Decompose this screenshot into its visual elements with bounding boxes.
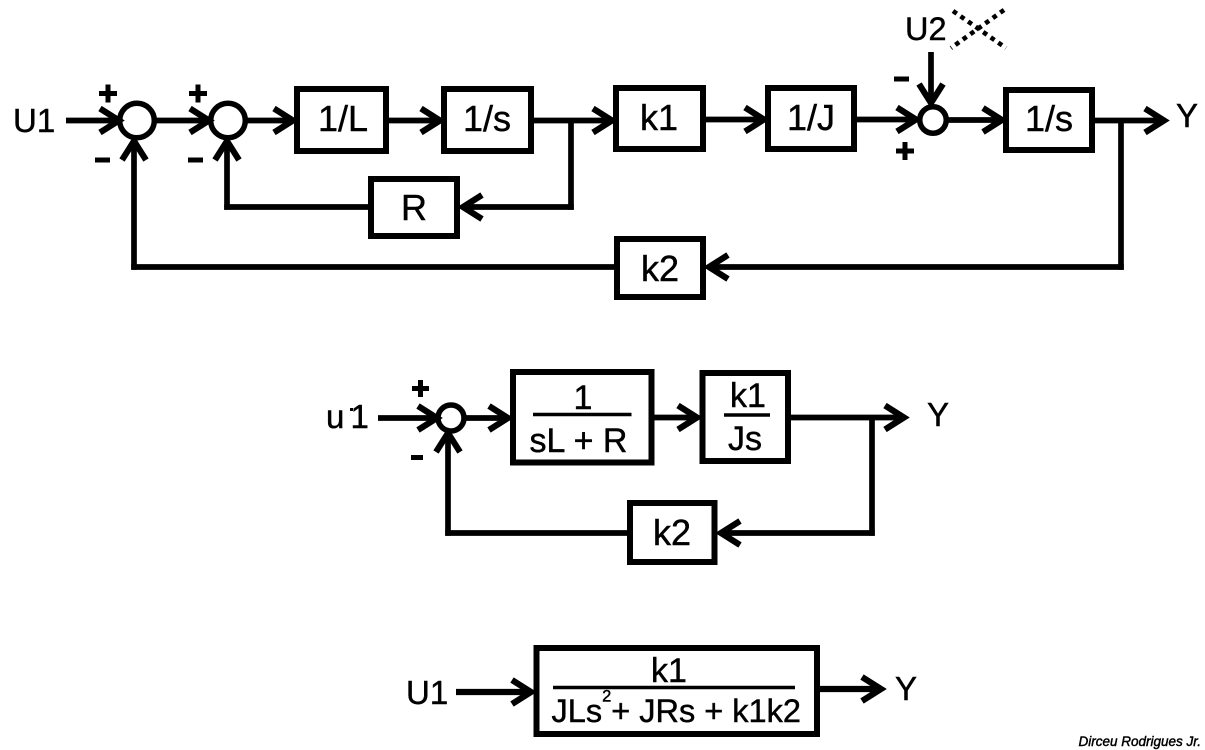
svg-text:Y: Y — [927, 396, 949, 433]
wire U1 to transfer-function block — [456, 689, 530, 695]
wire feedback into block R — [464, 204, 574, 210]
block k1/Js — [703, 373, 789, 461]
plus sign at S4 — [412, 380, 429, 397]
block k2 (top diagram) — [617, 239, 703, 297]
wire feedback into block k2 — [710, 264, 1124, 270]
wire feedback into block k2 (middle) — [722, 530, 875, 536]
svg-text:U2: U2 — [905, 11, 947, 47]
svg-text:U1: U1 — [13, 102, 55, 139]
wire junction drop from output to k2 feedback — [1118, 121, 1124, 270]
wire S3 to block 1/s (second) — [948, 117, 1001, 123]
wire 1/s to output Y — [1095, 118, 1163, 124]
dotted X mark over U2 — [951, 10, 1006, 48]
block 1/s (first) — [444, 89, 531, 151]
wire up into S1 minus input — [131, 142, 137, 270]
minus sign at S1 — [95, 158, 110, 163]
wire k2 output to left (middle) — [445, 530, 627, 536]
wire S2 to block 1/L — [247, 118, 292, 124]
wire k1 to block 1/J — [706, 117, 763, 123]
svg-text:U1: U1 — [406, 674, 448, 711]
svg-text:Js: Js — [728, 420, 762, 458]
plus sign at S2 — [189, 85, 207, 103]
wire U2 down into S3 — [928, 52, 934, 102]
wire block to output Y (bottom) — [820, 686, 880, 692]
svg-text:1/J: 1/J — [787, 97, 835, 138]
wire k2 output to left — [131, 264, 614, 270]
wire 1/(sL+R) to block k1/Js — [654, 415, 696, 421]
summing junction S2 — [211, 103, 246, 138]
block 1/s (second) — [1006, 90, 1092, 150]
plus sign at S1 — [99, 85, 117, 103]
svg-text:1/s: 1/s — [463, 98, 511, 139]
block 1/L — [297, 89, 386, 151]
summing junction S1 — [120, 103, 155, 138]
wire u1 to summing junction S4 — [378, 415, 436, 421]
svg-text:JLs2+ JRs + k1k2: JLs2+ JRs + k1k2 — [552, 688, 801, 730]
svg-text:k2: k2 — [653, 512, 691, 553]
summing junction S3 — [920, 107, 947, 134]
svg-text:u: u — [326, 398, 344, 435]
wire junction drop from output to k2 feedback (middle) — [869, 418, 875, 536]
svg-text:1/L: 1/L — [318, 98, 368, 139]
svg-text:Y: Y — [895, 670, 917, 707]
wire junction drop from 1/s output to R feedback — [568, 121, 574, 210]
wire S4 to block 1/(sL+R) — [466, 415, 507, 421]
block R — [371, 179, 457, 236]
svg-text:1: 1 — [574, 379, 593, 417]
stray dot after u — [350, 408, 353, 411]
block k2 (middle diagram) — [630, 503, 715, 562]
svg-text:sL + R: sL + R — [530, 422, 628, 460]
svg-text:R: R — [401, 187, 427, 228]
svg-text:k1: k1 — [651, 652, 687, 690]
wire S1 to summing junction S2 — [156, 118, 208, 124]
block 1/(sL+R) — [513, 372, 652, 463]
wire U1 to summing junction S1 — [66, 118, 118, 124]
wire 1/s to block k1 — [534, 118, 611, 124]
wire up into S4 minus input — [445, 434, 451, 536]
svg-text:k2: k2 — [641, 248, 679, 289]
block 1/J — [768, 88, 854, 149]
svg-text:Y: Y — [1176, 97, 1198, 134]
svg-text:Dirceu Rodrigues Jr.: Dirceu Rodrigues Jr. — [1078, 734, 1201, 749]
svg-text:1: 1 — [351, 398, 369, 435]
minus sign at S2 — [188, 158, 203, 163]
plus sign at S3 — [896, 142, 914, 160]
block k1 — [616, 88, 703, 149]
wire R output to left — [224, 204, 368, 210]
minus sign at S3 — [894, 77, 909, 82]
wire 1/J to summing junction S3 — [857, 117, 915, 123]
wire up into S2 minus input — [224, 142, 230, 210]
svg-text:k1: k1 — [730, 377, 766, 415]
summing junction S4 — [438, 405, 464, 431]
svg-text:k1: k1 — [640, 97, 678, 138]
svg-text:1/s: 1/s — [1025, 98, 1073, 139]
block k1/(JLs^2+JRs+k1k2) — [537, 648, 818, 734]
minus sign at S4 — [411, 455, 423, 460]
wire k1/Js to output Y — [791, 415, 903, 421]
wire 1/L to 1/s — [389, 118, 439, 124]
